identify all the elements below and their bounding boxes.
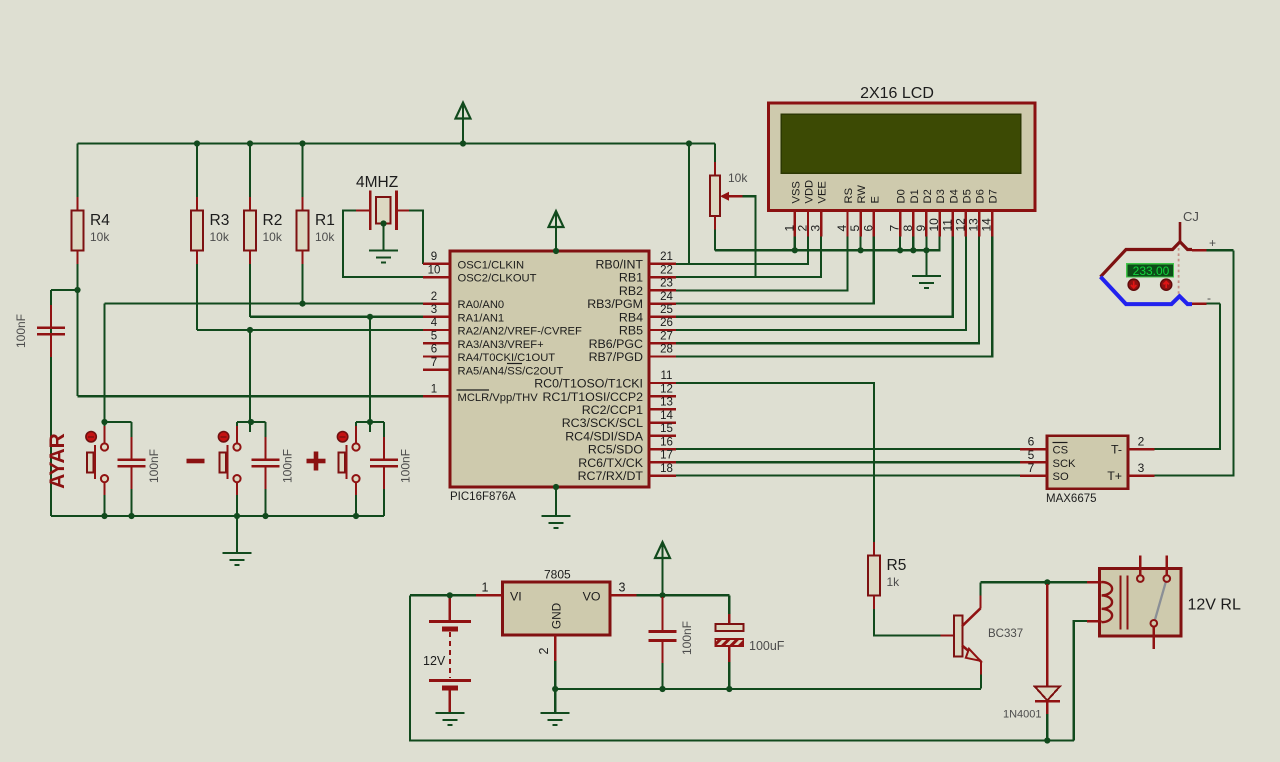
LCD pin 10 D3 bbox=[927, 189, 947, 236]
junction collector/diode bbox=[1044, 579, 1050, 585]
wire RB7 to D7 bbox=[676, 237, 992, 357]
wire RB5 to D5 bbox=[676, 237, 966, 331]
svg-text:7: 7 bbox=[431, 357, 437, 369]
LCD pin 14 D7 bbox=[980, 189, 1000, 236]
LCD pin 8 D1 bbox=[901, 189, 921, 236]
svg-text:RA2/AN2/VREF-/CVREF: RA2/AN2/VREF-/CVREF bbox=[458, 326, 582, 338]
wire diode to +12V rail bbox=[1046, 714, 1048, 741]
junction diode/rail bbox=[1044, 737, 1050, 743]
junction rail AYAR bbox=[101, 513, 107, 519]
LCD pin 4 RS bbox=[835, 188, 855, 237]
thermocouple TC1 CJ bbox=[1101, 209, 1217, 305]
junction RA2/minus button bbox=[247, 327, 253, 333]
svg-text:2: 2 bbox=[431, 291, 437, 303]
svg-text:RS: RS bbox=[843, 188, 855, 204]
svg-text:RA4/T0CKI/C1OUT: RA4/T0CKI/C1OUT bbox=[458, 352, 556, 364]
wire C5 vertical bbox=[50, 290, 52, 516]
pin 15 RC4/SDI/SDA bbox=[565, 423, 676, 443]
junction C7 gnd bbox=[726, 686, 732, 692]
pin 21 RB0/INT bbox=[595, 251, 676, 271]
svg-text:RC0/T1OSO/T1CKI: RC0/T1OSO/T1CKI bbox=[534, 377, 643, 391]
wire C7 to gnd line bbox=[728, 662, 730, 689]
wire VO power stem bbox=[661, 542, 663, 595]
svg-text:2: 2 bbox=[796, 225, 810, 232]
wire T- to thermocouple minus bbox=[1155, 304, 1221, 450]
label plus bbox=[307, 452, 326, 471]
wire pot bottom to gnd line bbox=[714, 230, 716, 251]
wire battery to VI bbox=[410, 594, 476, 596]
LCD pin 5 RW bbox=[848, 185, 868, 237]
svg-text:13: 13 bbox=[660, 397, 673, 409]
battery BT1 12V bbox=[423, 595, 471, 712]
push button AYAR bbox=[86, 426, 108, 496]
wire R4 to MCLR node bbox=[76, 264, 78, 396]
pin 5 RA3/AN3/VREF+ bbox=[423, 331, 544, 351]
svg-text:E: E bbox=[869, 196, 881, 203]
svg-text:D2: D2 bbox=[922, 189, 934, 203]
relay RL1 12V RL bbox=[1087, 556, 1241, 649]
svg-text:9: 9 bbox=[431, 251, 437, 263]
svg-text:233.00: 233.00 bbox=[1133, 264, 1170, 278]
svg-text:RC7/RX/DT: RC7/RX/DT bbox=[578, 469, 644, 483]
junction node minus bbox=[248, 419, 254, 425]
capacitor C7 100uF electrolytic bbox=[715, 614, 743, 662]
junction D2 bbox=[923, 247, 929, 253]
wire LCD ground line bbox=[715, 237, 940, 251]
7805 pin 3 VO bbox=[610, 594, 637, 596]
pin 10 OSC2/CLKOUT bbox=[423, 264, 537, 284]
svg-text:100nF: 100nF bbox=[147, 449, 161, 483]
wire C1 top bbox=[130, 422, 132, 437]
wire node to C5 bbox=[51, 289, 78, 291]
pin 18 RC7/RX/DT bbox=[578, 463, 676, 483]
svg-text:RC2/CCP1: RC2/CCP1 bbox=[582, 403, 643, 417]
svg-text:RB2: RB2 bbox=[619, 284, 643, 298]
capacitor C2 100nF bbox=[252, 437, 280, 489]
wire AYAR bottom to rail bbox=[103, 495, 105, 516]
overline SS bbox=[507, 363, 522, 365]
wire rail to R1 bbox=[301, 144, 303, 211]
svg-text:7: 7 bbox=[888, 225, 902, 232]
wire minus button to RA2 bbox=[249, 330, 251, 432]
junction RA0/R1 bbox=[299, 301, 305, 307]
wire RB6 to D6 bbox=[676, 237, 979, 344]
junction PIC VDD top bbox=[553, 248, 559, 254]
pin 13 RC2/CCP1 bbox=[582, 397, 676, 417]
wire crystal to ground bbox=[382, 224, 384, 251]
svg-text:RB4: RB4 bbox=[619, 310, 643, 324]
wire plus bottom to rail bbox=[355, 495, 357, 516]
wire collector to relay coil bbox=[981, 581, 1087, 583]
svg-text:28: 28 bbox=[660, 344, 673, 356]
wire thermocouple minus bbox=[1207, 303, 1221, 305]
svg-text:D7: D7 bbox=[988, 189, 1000, 203]
junction rail/R2 bbox=[247, 140, 253, 146]
wire +12V bottom rail bbox=[410, 595, 1074, 740]
svg-text:RA0/AN0: RA0/AN0 bbox=[458, 299, 505, 311]
wire LCD pin to ground line bbox=[925, 237, 927, 251]
svg-text:R5: R5 bbox=[887, 557, 907, 574]
svg-text:1k: 1k bbox=[887, 575, 901, 589]
svg-text:3: 3 bbox=[619, 581, 626, 595]
svg-text:RB0/INT: RB0/INT bbox=[595, 258, 643, 272]
svg-text:15: 15 bbox=[660, 423, 673, 435]
svg-text:7: 7 bbox=[1028, 461, 1035, 475]
wire R3 down bbox=[196, 264, 198, 330]
LCD pin 3 VEE bbox=[809, 181, 829, 236]
capacitor C1 100nF bbox=[118, 437, 146, 489]
svg-text:100nF: 100nF bbox=[14, 314, 28, 348]
junction crystal ground bbox=[380, 220, 386, 226]
ground battery bbox=[435, 713, 464, 725]
wire rail to R3 bbox=[196, 144, 198, 211]
pin 25 RB4 bbox=[619, 304, 676, 324]
MAX6675 pin 3 T+ bbox=[1107, 461, 1154, 483]
svg-text:25: 25 bbox=[660, 304, 673, 316]
wire C2 top bbox=[264, 422, 266, 437]
wire thermocouple plus bbox=[1207, 249, 1234, 251]
svg-text:10k: 10k bbox=[315, 230, 335, 244]
svg-text:MCLR/Vpp/THV: MCLR/Vpp/THV bbox=[458, 392, 539, 404]
wire RB0/VDD line bbox=[676, 237, 808, 264]
pin 7 RA5/AN4/SS/C2OUT bbox=[423, 357, 563, 377]
power +5V flag PIC bbox=[549, 211, 564, 227]
LCD pin 12 D5 bbox=[953, 189, 973, 236]
wire rail to pot bbox=[689, 142, 715, 144]
svg-text:5: 5 bbox=[431, 331, 437, 343]
svg-text:1: 1 bbox=[782, 225, 796, 232]
resistor R3 10k bbox=[191, 197, 230, 264]
MAX6675 pin 2 T- bbox=[1111, 435, 1155, 457]
svg-text:VSS: VSS bbox=[790, 181, 802, 203]
wire RB3 to E bbox=[676, 237, 874, 304]
wire R2 down bbox=[249, 264, 251, 317]
svg-text:4: 4 bbox=[835, 225, 849, 232]
pin 9 OSC1/CLKIN bbox=[423, 251, 524, 271]
wire RC5 to CS bbox=[676, 448, 1020, 450]
wire rail to ground bbox=[236, 516, 238, 553]
LCD pin 7 D0 bbox=[888, 189, 908, 236]
svg-text:5: 5 bbox=[848, 225, 862, 232]
crystal X1 4MHZ bbox=[356, 174, 409, 230]
svg-text:VDD: VDD bbox=[804, 180, 816, 204]
svg-text:10k: 10k bbox=[728, 171, 748, 185]
svg-text:18: 18 bbox=[660, 463, 673, 475]
svg-text:12: 12 bbox=[953, 218, 967, 232]
pin 28 RB7/PGD bbox=[589, 344, 676, 364]
pin 1 MCLR/Vpp/THV bbox=[423, 383, 538, 403]
wire minus node bbox=[237, 421, 266, 423]
wire RB2 to RS bbox=[676, 237, 848, 291]
svg-text:RB5: RB5 bbox=[619, 324, 643, 338]
svg-text:PIC16F876A: PIC16F876A bbox=[450, 491, 516, 503]
svg-text:D0: D0 bbox=[896, 189, 908, 203]
wire C3 bottom bbox=[383, 489, 385, 516]
svg-text:10k: 10k bbox=[90, 230, 110, 244]
wire LCD pin to ground line bbox=[794, 237, 796, 251]
LCD pin 1 VSS bbox=[782, 181, 802, 236]
junction rail/VDD drop bbox=[686, 140, 692, 146]
junction rail C1 bbox=[128, 513, 134, 519]
wire crystal to OSC2 pin 10 bbox=[343, 211, 423, 278]
svg-text:R3: R3 bbox=[210, 212, 230, 229]
svg-text:10k: 10k bbox=[263, 230, 283, 244]
svg-text:T+: T+ bbox=[1107, 469, 1122, 483]
wire plus node bbox=[356, 421, 384, 423]
wire R5 to base bbox=[874, 609, 941, 636]
junction RA1/plus button bbox=[367, 314, 373, 320]
wire RC6 to SCK bbox=[676, 461, 1020, 463]
pin 27 RB6/PGC bbox=[589, 331, 676, 351]
svg-text:SCK: SCK bbox=[1053, 458, 1077, 470]
svg-text:AYAR: AYAR bbox=[46, 433, 69, 489]
wire RA1 line to pin 3 bbox=[250, 316, 423, 318]
svg-text:6: 6 bbox=[861, 225, 875, 232]
svg-text:VO: VO bbox=[583, 590, 601, 604]
wire C3 top bbox=[383, 422, 385, 437]
junction node plus bbox=[367, 419, 373, 425]
wire minus btn drop bbox=[236, 422, 238, 432]
svg-text:D1: D1 bbox=[909, 189, 921, 203]
svg-text:100uF: 100uF bbox=[749, 639, 785, 653]
wire C6 to gnd line bbox=[661, 663, 663, 689]
pin 22 RB1 bbox=[619, 264, 676, 284]
pin 24 RB3/PGM bbox=[587, 291, 676, 311]
svg-text:OSC1/CLKIN: OSC1/CLKIN bbox=[458, 260, 525, 272]
junction D0 bbox=[897, 247, 903, 253]
svg-text:16: 16 bbox=[660, 436, 673, 448]
svg-text:17: 17 bbox=[660, 450, 673, 462]
junction rail plus bbox=[353, 513, 359, 519]
power +5V flag VO bbox=[655, 542, 670, 558]
svg-text:10: 10 bbox=[428, 264, 441, 276]
overline CS bbox=[1053, 442, 1068, 444]
wire +5V top rail bbox=[78, 142, 716, 144]
ground LCD bbox=[912, 276, 941, 288]
junction R4/C-mclr/MCLR bbox=[74, 287, 80, 293]
pin 16 RC5/SDO bbox=[588, 436, 676, 456]
svg-text:RB7/PGD: RB7/PGD bbox=[589, 350, 643, 364]
wire rail to R2 bbox=[249, 144, 251, 211]
svg-text:100nF: 100nF bbox=[399, 449, 413, 483]
svg-text:3: 3 bbox=[809, 225, 823, 232]
pin 2 RA0/AN0 bbox=[423, 291, 504, 311]
pin 3 RA1/AN1 bbox=[423, 304, 504, 324]
svg-text:RB1: RB1 bbox=[619, 271, 643, 285]
wire pot top bbox=[714, 144, 716, 163]
svg-text:14: 14 bbox=[660, 410, 673, 422]
svg-text:1N4001: 1N4001 bbox=[1003, 709, 1042, 721]
wire C2 bottom bbox=[264, 489, 266, 516]
svg-text:RC4/SDI/SDA: RC4/SDI/SDA bbox=[565, 430, 644, 444]
junction C6 gnd bbox=[659, 686, 665, 692]
MAX6675 pin 6 CS bbox=[1020, 435, 1068, 457]
pin 6 RA4/T0CKI/C1OUT bbox=[423, 344, 555, 364]
wire crystal to OSC1 pin 9 bbox=[409, 211, 423, 264]
svg-text:6: 6 bbox=[431, 344, 437, 356]
junction 7805 gnd bbox=[552, 686, 558, 692]
ground buttons bbox=[223, 553, 252, 565]
ground PIC bbox=[542, 516, 571, 528]
pin 17 RC6/TX/CK bbox=[578, 450, 676, 470]
svg-text:RC1/T1OSI/CCP2: RC1/T1OSI/CCP2 bbox=[542, 390, 643, 404]
resistor R2 10k bbox=[244, 197, 283, 264]
junction node AYAR bbox=[101, 419, 107, 425]
junction RW bbox=[858, 247, 864, 253]
svg-text:RA1/AN1: RA1/AN1 bbox=[458, 312, 505, 324]
wire ground line to emitter bbox=[555, 688, 981, 690]
svg-text:9: 9 bbox=[914, 225, 928, 232]
svg-text:4: 4 bbox=[431, 317, 438, 329]
wire +5V drop bbox=[688, 144, 690, 264]
svg-text:RA3/AN3/VREF+: RA3/AN3/VREF+ bbox=[458, 339, 544, 351]
svg-text:RW: RW bbox=[856, 185, 868, 204]
svg-text:2: 2 bbox=[537, 647, 551, 654]
wire RB4 to D4 bbox=[676, 237, 953, 317]
junction PIC VSS bottom bbox=[553, 484, 559, 490]
svg-text:12V RL: 12V RL bbox=[1188, 597, 1241, 614]
wire PIC to ground bbox=[555, 487, 557, 516]
junction rail minus bbox=[234, 513, 240, 519]
potentiometer RV1 10k bbox=[710, 162, 748, 230]
svg-text:26: 26 bbox=[660, 317, 673, 329]
pin 26 RB5 bbox=[619, 317, 676, 337]
voltage regulator U3 7805 bbox=[503, 582, 611, 635]
svg-text:27: 27 bbox=[660, 331, 673, 343]
7805 pin 2 GND bbox=[554, 635, 556, 661]
wire RA0 line to pin 2 bbox=[105, 303, 424, 305]
LCD pin 11 D4 bbox=[940, 189, 960, 236]
svg-text:GND: GND bbox=[550, 603, 564, 629]
svg-text:22: 22 bbox=[660, 264, 673, 276]
svg-text:2: 2 bbox=[1138, 435, 1145, 449]
wire LCD pin to ground line bbox=[912, 237, 914, 251]
svg-text:D6: D6 bbox=[975, 189, 987, 203]
pin 4 RA2/AN2/VREF-/CVREF bbox=[423, 317, 582, 337]
svg-text:3: 3 bbox=[431, 304, 437, 316]
svg-text:VEE: VEE bbox=[817, 181, 829, 203]
resistor R5 1k bbox=[868, 542, 906, 609]
thermocouple interface U2 MAX6675 bbox=[1047, 436, 1128, 489]
resistor R4 10k bbox=[72, 197, 111, 264]
pin 11 RC0/T1OSO/T1CKI bbox=[534, 370, 676, 390]
wire RC0 to R5 bbox=[676, 383, 874, 542]
pin 14 RC3/SCK/SCL bbox=[562, 410, 676, 430]
svg-text:21: 21 bbox=[660, 251, 673, 263]
svg-text:1: 1 bbox=[482, 581, 489, 595]
svg-text:D4: D4 bbox=[948, 189, 960, 203]
push button plus bbox=[337, 426, 359, 496]
wire 7805 gnd down bbox=[554, 661, 556, 689]
LCD pin 13 D6 bbox=[967, 189, 987, 236]
7805 pin 1 VI bbox=[476, 594, 503, 596]
svg-text:R1: R1 bbox=[315, 212, 335, 229]
LCD pin 2 VDD bbox=[796, 180, 816, 237]
wire T+ to thermocouple plus bbox=[1155, 250, 1234, 475]
svg-text:100nF: 100nF bbox=[281, 449, 295, 483]
wire R1 down bbox=[301, 264, 303, 304]
junction D1 bbox=[910, 247, 916, 253]
svg-text:10k: 10k bbox=[210, 230, 230, 244]
svg-text:D3: D3 bbox=[935, 189, 947, 203]
svg-text:VI: VI bbox=[510, 590, 522, 604]
svg-text:10: 10 bbox=[927, 218, 941, 232]
wire C1 bottom bbox=[130, 489, 132, 516]
svg-text:RB6/PGC: RB6/PGC bbox=[589, 337, 643, 351]
capacitor C6 100nF bbox=[649, 597, 677, 663]
wire AYAR button to RA0 bbox=[103, 304, 105, 432]
LCD pin 9 D2 bbox=[914, 189, 934, 236]
svg-text:12: 12 bbox=[660, 383, 673, 395]
svg-text:RC3/SCK/SCL: RC3/SCK/SCL bbox=[562, 416, 643, 430]
pin 12 RC1/T1OSI/CCP2 bbox=[542, 383, 676, 403]
wire to ground symbol bbox=[554, 689, 556, 713]
svg-text:D5: D5 bbox=[961, 189, 973, 203]
svg-text:OSC2/CLKOUT: OSC2/CLKOUT bbox=[458, 273, 537, 285]
diode D1 1N4001 bbox=[1003, 584, 1060, 721]
svg-text:SO: SO bbox=[1053, 471, 1069, 483]
svg-text:+: + bbox=[1209, 236, 1216, 250]
wire power flag stem bbox=[462, 103, 464, 144]
wire LCD pin to ground line bbox=[860, 237, 862, 251]
wire emitter to gnd line bbox=[980, 675, 982, 689]
microcontroller U1 PIC16F876A bbox=[450, 251, 649, 487]
svg-text:RC6/TX/CK: RC6/TX/CK bbox=[578, 456, 643, 470]
wire minus bottom to rail bbox=[236, 495, 238, 516]
label minus bbox=[187, 459, 205, 464]
ground 7805 bbox=[541, 713, 570, 725]
svg-text:13: 13 bbox=[967, 218, 981, 232]
svg-text:MAX6675: MAX6675 bbox=[1046, 493, 1097, 505]
wire RB1/VEE line bbox=[676, 237, 821, 278]
svg-text:100nF: 100nF bbox=[680, 621, 694, 655]
junction VSS bbox=[792, 247, 798, 253]
wire PIC power stem bbox=[555, 211, 557, 251]
ground crystal bbox=[369, 251, 398, 263]
wire +12V rail to relay coil bbox=[1074, 621, 1087, 740]
wire collector bbox=[979, 582, 981, 595]
svg-text:RC5/SDO: RC5/SDO bbox=[588, 443, 643, 457]
svg-text:11: 11 bbox=[940, 219, 954, 232]
svg-text:R2: R2 bbox=[263, 212, 283, 229]
wire VO to C7 bbox=[728, 595, 730, 614]
wire button ground rail bbox=[51, 515, 384, 517]
pin 23 RB2 bbox=[619, 278, 676, 298]
svg-text:4MHZ: 4MHZ bbox=[356, 174, 398, 191]
svg-text:5: 5 bbox=[1028, 448, 1035, 462]
svg-text:11: 11 bbox=[661, 370, 673, 382]
wire rail to R4 bbox=[76, 144, 78, 198]
svg-text:RB3/PGM: RB3/PGM bbox=[587, 297, 643, 311]
svg-text:CS: CS bbox=[1053, 445, 1069, 457]
svg-text:2X16 LCD: 2X16 LCD bbox=[860, 85, 934, 102]
wire RA2 line to pin 4 bbox=[197, 329, 423, 331]
svg-text:1: 1 bbox=[431, 383, 437, 395]
svg-text:BC337: BC337 bbox=[988, 628, 1023, 640]
svg-text:6: 6 bbox=[1028, 435, 1035, 449]
wire RC7 to SO bbox=[676, 475, 1020, 477]
LCD pin 6 E bbox=[861, 196, 881, 236]
junction rail/power flag bbox=[460, 140, 466, 146]
junction rail/R1 bbox=[299, 140, 305, 146]
wire gnd stem LCD bbox=[925, 250, 927, 276]
svg-text:RA5/AN4/SS/C2OUT: RA5/AN4/SS/C2OUT bbox=[458, 365, 564, 377]
junction battery + bbox=[447, 592, 453, 598]
push button minus bbox=[218, 426, 240, 496]
wire LCD pin to ground line bbox=[899, 237, 901, 251]
wire VO node bbox=[637, 594, 730, 596]
svg-text:8: 8 bbox=[901, 225, 915, 232]
